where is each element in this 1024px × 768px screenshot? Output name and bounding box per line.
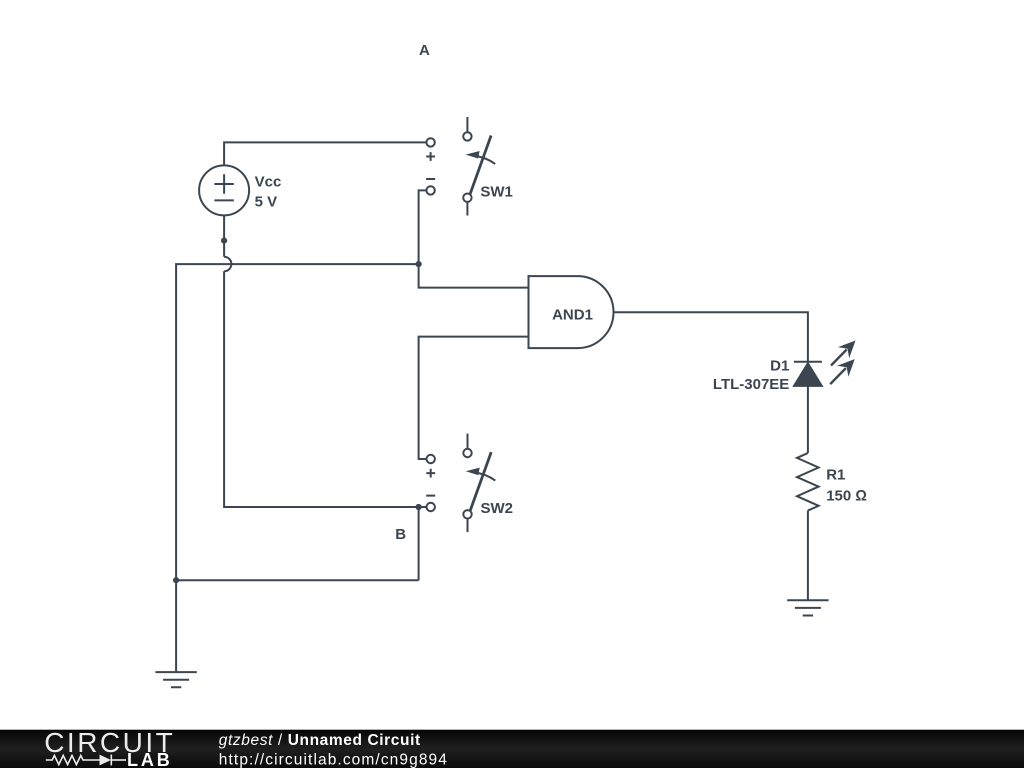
R1 labels — [826, 467, 867, 505]
SW1 pole top — [466, 117, 468, 132]
svg-text:LTL-307EE: LTL-307EE — [713, 376, 789, 393]
wire R1 to ground — [807, 511, 809, 601]
svg-text:AND1: AND1 — [552, 307, 593, 324]
wire bottom horizontal to ground rail — [176, 579, 419, 581]
resistor R1 — [797, 453, 819, 511]
junction dot left rail bottom — [173, 577, 179, 583]
CircuitLab logo mini schematic — [46, 755, 126, 766]
wire SW2- junction down — [418, 507, 420, 580]
svg-text:Vcc: Vcc — [255, 174, 282, 191]
ground left — [155, 672, 196, 687]
footer bar — [0, 730, 1024, 768]
svg-text:http://circuitlab.com/cn9g894: http://circuitlab.com/cn9g894 — [219, 751, 448, 768]
switch SW2 — [426, 434, 513, 532]
svg-text:SW1: SW1 — [480, 183, 513, 200]
wire SW1 control- down to AND1 input A — [419, 190, 529, 287]
wire AND1 output to LED — [614, 312, 808, 361]
D1 anode triangle — [794, 363, 822, 386]
svg-text:D1: D1 — [770, 357, 789, 374]
SW2 control - terminal — [426, 495, 435, 497]
wire Vcc+ to SW1 control+ (net A) — [224, 142, 431, 165]
SW1 blade — [470, 136, 491, 195]
svg-text:150 Ω: 150 Ω — [826, 487, 867, 504]
D1 cathode bar — [794, 361, 822, 363]
svg-text:gtzbest / Unnamed Circuit: gtzbest / Unnamed Circuit — [219, 732, 421, 749]
D1 light arrow 2 — [830, 368, 846, 384]
SW2 control + terminal — [427, 455, 435, 463]
junction dot SW2- branch — [416, 504, 422, 510]
junction dot below Vcc — [221, 238, 227, 244]
wire continues down then right (net B rail) — [224, 271, 431, 507]
SW1 pole bottom — [463, 194, 471, 202]
ground right — [787, 600, 828, 615]
wire left rail to ground — [175, 580, 177, 672]
svg-text:A: A — [419, 42, 430, 59]
svg-text:B: B — [395, 526, 406, 543]
wire LED to R1 — [807, 386, 809, 453]
SW2 pole top — [467, 434, 469, 449]
SW1 control + terminal — [426, 138, 434, 146]
wire AND1 input B to SW2 control+ — [419, 337, 529, 459]
voltage source Vcc — [199, 165, 249, 215]
SW2 pole bottom — [463, 510, 471, 518]
wire hop over y=264 — [224, 257, 231, 272]
junction dot SW1- / AND1-A branch — [416, 261, 422, 267]
Vcc labels — [255, 174, 282, 211]
wire horizontal branch at y=264 and down left rail — [176, 264, 419, 580]
D1 labels — [713, 357, 789, 393]
svg-text:SW2: SW2 — [481, 500, 514, 517]
wire Vcc- down with hop to SW2 control- — [223, 215, 225, 256]
SW1 control - terminal — [426, 178, 435, 180]
svg-text:5 V: 5 V — [255, 193, 278, 210]
switch SW1 — [426, 117, 513, 216]
SW2 actuation arrow — [473, 472, 495, 480]
LED D1 — [794, 341, 856, 386]
SW2 blade — [470, 452, 491, 511]
svg-text:R1: R1 — [826, 467, 845, 484]
SW1 actuation arrow — [473, 156, 495, 164]
svg-text:LAB: LAB — [127, 750, 173, 768]
D1 light arrow 1 — [831, 350, 847, 366]
AND gate AND1 — [529, 276, 614, 348]
